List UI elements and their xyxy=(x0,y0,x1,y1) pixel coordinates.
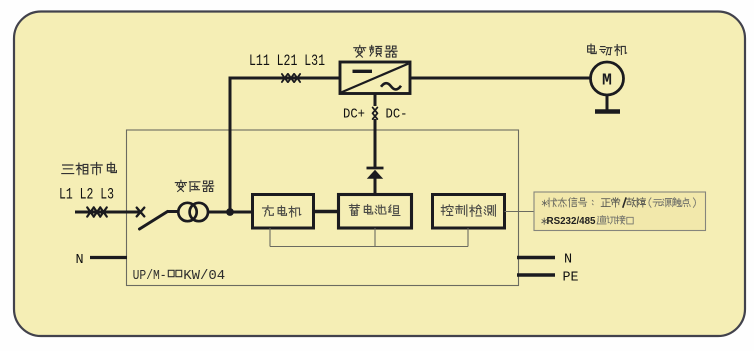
three-phase break marks on mains wire xyxy=(87,207,107,216)
wire diode to battery xyxy=(374,179,377,195)
inverter diagonal divider xyxy=(342,64,409,93)
wire DC link from inverter xyxy=(374,94,377,107)
label N (right) xyxy=(564,253,572,268)
wire mains input L1 L2 L3 xyxy=(75,211,139,214)
label L1 L2 L3 xyxy=(59,186,114,204)
label 变压器 (transformer) xyxy=(175,180,213,191)
node junction at transformer output xyxy=(226,208,234,216)
wire top feed to inverter (L11 L21 L31) xyxy=(229,77,341,80)
inverter AC symbol (tilde) xyxy=(381,83,401,89)
label DC+ xyxy=(343,107,365,123)
inverter U1 (DC/AC) box xyxy=(340,62,410,94)
svg-text:DC+: DC+ xyxy=(343,107,365,123)
svg-text:M: M xyxy=(602,71,612,90)
control/monitor box 控制检测 xyxy=(433,195,505,229)
label 充电机 xyxy=(263,206,301,218)
inverter DC symbol (minus) xyxy=(353,70,373,73)
svg-text:L11 L21 L31: L11 L21 L31 xyxy=(249,52,325,70)
wire riser from junction to inverter feed xyxy=(229,77,232,214)
info line 2: *RS232/485 通讯接口 xyxy=(542,215,633,227)
motor ground stub xyxy=(606,95,609,110)
thin link control box to info box xyxy=(505,211,535,213)
label DC- xyxy=(386,107,408,123)
wire N right xyxy=(517,256,555,259)
three-phase break marks on inverter feed xyxy=(282,74,300,82)
svg-text:UP/M-: UP/M- xyxy=(133,268,167,284)
UPS enclosure box xyxy=(127,130,519,286)
motor M circle xyxy=(591,62,624,95)
info box (status signals) xyxy=(534,192,706,231)
thin control bus below boxes xyxy=(270,228,468,247)
switch fixed contact cross xyxy=(137,208,145,217)
svg-text:L1 L2 L3: L1 L2 L3 xyxy=(59,186,114,204)
label 三相市电 (three-phase mains) xyxy=(62,163,117,175)
label UP/M-KW/04 model xyxy=(133,268,226,284)
svg-text:RS232/485: RS232/485 xyxy=(547,215,596,227)
svg-text:DC-: DC- xyxy=(386,107,408,123)
svg-text:N: N xyxy=(76,253,84,268)
label L11 L21 L31 xyxy=(249,52,325,70)
svg-text:N: N xyxy=(564,253,572,268)
label 电动机 (motor) xyxy=(588,44,627,56)
diode D1 (battery discharge) xyxy=(367,168,384,179)
switch QF blade (open) xyxy=(140,212,179,230)
svg-text:PE: PE xyxy=(563,271,579,286)
wire inverter to motor xyxy=(410,77,591,80)
charger box 充电机 xyxy=(253,195,314,229)
break marks on DC link xyxy=(373,107,378,119)
transformer T1 xyxy=(178,203,208,221)
battery pack box 蓄电池组 xyxy=(339,195,412,229)
motor letter M xyxy=(602,71,612,90)
wire charger to battery xyxy=(314,210,339,214)
svg-text:KW/04: KW/04 xyxy=(183,268,225,284)
label N (left) xyxy=(76,253,84,268)
label 变频器 (inverter) xyxy=(354,45,397,57)
wire DC link to diode xyxy=(374,119,377,167)
info line 1: *状态信号: 正常/故障 (无源触点) xyxy=(542,198,695,208)
wire N left xyxy=(90,256,127,259)
ground (earth bar) xyxy=(595,109,620,114)
wire transformer to charger xyxy=(208,211,253,214)
wire PE right xyxy=(517,273,555,276)
label 控制检测 xyxy=(441,205,495,217)
label 蓄电池组 xyxy=(349,204,400,215)
label PE xyxy=(563,271,579,286)
